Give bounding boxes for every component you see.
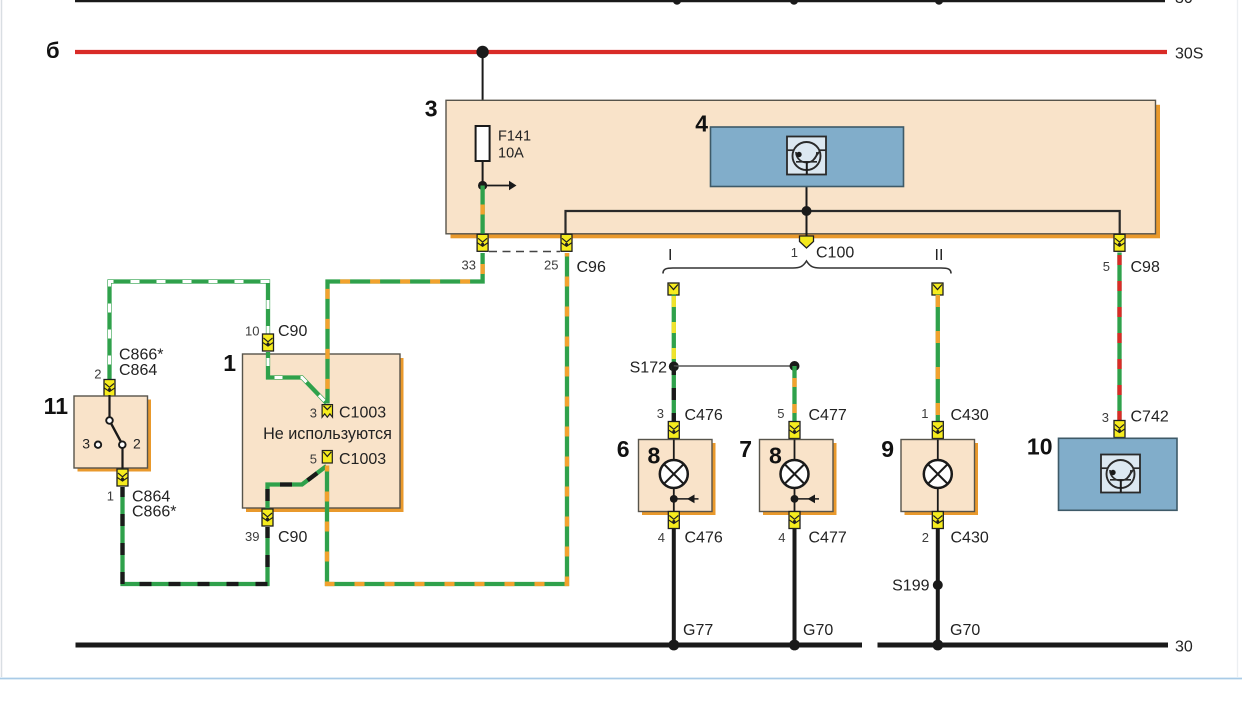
connector 2 C430 <box>922 512 989 547</box>
connector half II <box>932 283 943 295</box>
svg-text:2: 2 <box>922 530 929 545</box>
svg-text:C864: C864 <box>119 362 157 379</box>
lamp 8 in unit 7 <box>781 440 809 512</box>
connector 1 C430 <box>921 406 989 439</box>
right page border <box>1237 0 1239 677</box>
connector pin 33 <box>462 234 489 272</box>
svg-text:4: 4 <box>658 530 665 545</box>
ground wire lamp 7 <box>793 529 797 645</box>
case arrow node lamp 6 <box>670 495 699 504</box>
wire feed from 30S to fuse <box>482 52 484 126</box>
ground wire lamp 6 <box>672 529 676 645</box>
wire C90 pin39 to C1003 pin5 inside box 1 (green/black) <box>268 466 327 509</box>
svg-text:10: 10 <box>1027 434 1053 460</box>
svg-text:3: 3 <box>425 96 438 122</box>
svg-text:1: 1 <box>921 406 928 421</box>
dashed connector link C96 <box>489 251 560 253</box>
svg-text:C1003: C1003 <box>339 451 386 468</box>
svg-text:4: 4 <box>778 530 785 545</box>
wire C98 to C742 (red/green) <box>1117 253 1121 422</box>
wire pin5 C1003 to pin25 C96 (green/orange) <box>327 253 567 584</box>
bus 30 top (cut off) <box>75 0 1193 7</box>
ground wire lamp 9 <box>936 529 940 645</box>
svg-text:C1003: C1003 <box>339 405 386 422</box>
motor symbol in box 4 <box>787 137 826 175</box>
link wire S172 to lamp 7 branch <box>674 365 795 367</box>
wire branch to C477 (green/orange) <box>792 366 796 422</box>
brace for circuits I and II <box>663 247 951 274</box>
module box 4 (motor unit) <box>695 111 903 187</box>
ground bus 30 right segment <box>878 639 1193 656</box>
wire I to S172 (green/yellow) <box>672 295 676 367</box>
svg-text:8: 8 <box>648 443 661 469</box>
svg-text:S199: S199 <box>892 578 929 595</box>
svg-text:5: 5 <box>310 452 317 467</box>
wire II to C430 (green/orange) <box>936 295 940 423</box>
svg-text:2: 2 <box>94 367 101 382</box>
svg-text:11: 11 <box>44 393 69 419</box>
svg-text:2: 2 <box>133 436 141 452</box>
svg-text:C866*: C866* <box>132 504 176 521</box>
ground bus 30 left segment <box>76 640 863 651</box>
wire switch 11 pin2 to C90 pin10 (green/white) <box>110 282 269 380</box>
connector 1 switch 11 <box>107 469 177 521</box>
left page border <box>1 0 3 677</box>
svg-text:8: 8 <box>769 443 782 469</box>
connector 5 C477 <box>777 406 847 439</box>
svg-text:C96: C96 <box>577 259 606 276</box>
svg-text:C98: C98 <box>1131 259 1160 276</box>
connector 39 C90 <box>245 509 307 546</box>
svg-text:6: 6 <box>617 436 630 462</box>
lamp unit 9 <box>881 436 978 515</box>
svg-text:C477: C477 <box>809 530 847 547</box>
lamp 8 in unit 6 <box>660 440 688 512</box>
bus 30S red wire <box>75 50 1167 54</box>
svg-text:C90: C90 <box>278 323 307 340</box>
internal wire of box 3 <box>566 206 1120 234</box>
svg-text:C430: C430 <box>951 530 989 547</box>
module box 1 <box>223 350 403 512</box>
connector pin 1 C100 <box>791 236 855 262</box>
connector 3 C1003 <box>310 405 386 422</box>
svg-text:C866*: C866* <box>119 347 163 364</box>
svg-text:30: 30 <box>1175 639 1193 656</box>
svg-text:G70: G70 <box>950 622 980 639</box>
bottom separator line <box>0 678 1242 680</box>
svg-text:II: II <box>935 247 944 264</box>
svg-text:I: I <box>668 247 672 264</box>
wire S172 to C476 (green/black) <box>672 367 676 423</box>
svg-text:C476: C476 <box>685 407 723 424</box>
svg-text:33: 33 <box>462 258 476 273</box>
lamp unit 6 <box>617 436 716 515</box>
module box 3 <box>425 96 1160 239</box>
svg-text:б: б <box>46 38 60 63</box>
svg-text:1: 1 <box>223 350 236 376</box>
svg-text:C477: C477 <box>809 407 847 424</box>
connector 3 C476 <box>657 406 723 439</box>
svg-text:30S: 30S <box>1175 46 1203 63</box>
svg-text:4: 4 <box>695 111 708 137</box>
wire pin33 to pin3 C1003 (green/orange) <box>328 253 483 404</box>
svg-text:10A: 10A <box>498 146 524 162</box>
connector 5 C1003 <box>310 451 386 469</box>
connector 3 C742 <box>1102 409 1169 438</box>
fuse F141 10A <box>476 126 531 162</box>
svg-text:1: 1 <box>107 489 114 504</box>
svg-text:10: 10 <box>245 324 259 339</box>
node on lamp 7 branch <box>790 361 800 371</box>
node S199 <box>892 578 943 595</box>
svg-text:Не используются: Не используются <box>263 425 392 443</box>
svg-text:G70: G70 <box>803 622 833 639</box>
svg-text:25: 25 <box>544 258 558 273</box>
wire internal to pin 1 C100 <box>806 211 808 236</box>
svg-text:C100: C100 <box>816 245 854 262</box>
svg-text:39: 39 <box>245 529 259 544</box>
lamp in unit 9 <box>924 440 952 512</box>
connector half I <box>668 283 679 295</box>
connector 2 switch 11 <box>94 347 163 397</box>
case arrow node lamp 7 <box>791 495 819 504</box>
connector 4 C476 <box>658 512 723 547</box>
svg-text:G77: G77 <box>683 622 713 639</box>
wire C90 pin10 to C1003 pin3 inside box 1 (green/white) <box>268 352 327 403</box>
connector 10 C90 <box>245 323 307 351</box>
wire junction to pin 33 (green/orange) <box>480 186 484 238</box>
wire fuse to junction <box>482 161 484 186</box>
connector 4 C477 <box>778 512 847 547</box>
wire switch 11 pin1 to C90 pin39 (green/black) <box>123 487 268 584</box>
svg-text:3: 3 <box>310 406 317 421</box>
wire module 4 to internal wire <box>806 187 808 212</box>
svg-text:S172: S172 <box>630 360 667 377</box>
svg-text:9: 9 <box>881 436 894 462</box>
svg-text:30: 30 <box>1175 0 1193 7</box>
junction on 30S <box>476 46 488 58</box>
svg-text:7: 7 <box>739 436 752 462</box>
svg-text:C90: C90 <box>278 529 307 546</box>
connector pin 25 C96 <box>544 234 606 276</box>
lamp unit 7 <box>739 436 836 515</box>
motor symbol in box 10 <box>1101 455 1140 493</box>
svg-text:C476: C476 <box>685 530 723 547</box>
svg-text:5: 5 <box>1103 259 1110 274</box>
connector pin 5 C98 <box>1103 234 1160 276</box>
junction with arrow <box>478 181 517 191</box>
svg-text:F141: F141 <box>498 129 531 145</box>
module box 10 (motor unit) <box>1027 434 1177 511</box>
switch box 11 <box>44 393 151 472</box>
svg-text:3: 3 <box>82 436 90 452</box>
switch contacts <box>82 395 141 470</box>
node S172 <box>630 360 679 377</box>
svg-text:C430: C430 <box>951 407 989 424</box>
svg-text:5: 5 <box>777 406 784 421</box>
svg-text:C742: C742 <box>1131 409 1169 426</box>
svg-text:3: 3 <box>657 406 664 421</box>
svg-text:3: 3 <box>1102 410 1109 425</box>
svg-text:1: 1 <box>791 245 798 260</box>
